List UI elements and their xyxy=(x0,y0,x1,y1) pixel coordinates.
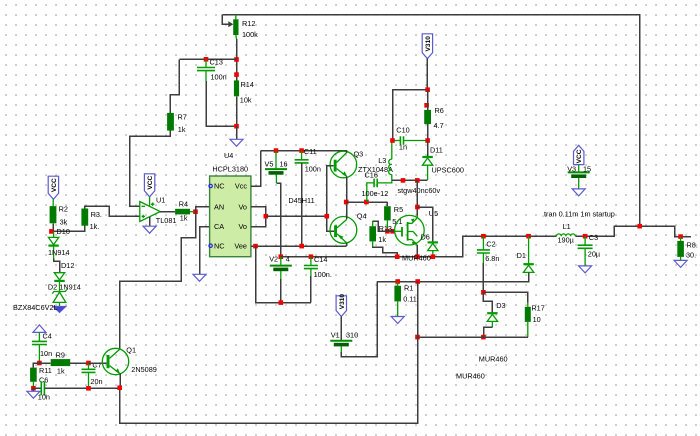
junction R2/R3/D10 node xyxy=(49,229,54,234)
svg-text:NC: NC xyxy=(214,182,225,191)
capacitor C2 xyxy=(477,250,490,253)
resistor R7 xyxy=(167,113,174,131)
svg-text:MUR460: MUR460 xyxy=(479,355,508,364)
svg-text:R14: R14 xyxy=(241,80,254,89)
ground under D2 (filled) xyxy=(53,306,66,312)
wire V5 top lead xyxy=(275,151,277,169)
junction V5 top xyxy=(274,148,279,153)
wire C7 node to Q1 base xyxy=(89,362,107,364)
svg-text:V1: V1 xyxy=(331,331,340,340)
svg-text:30.: 30. xyxy=(686,251,696,260)
battery V1 xyxy=(330,340,352,342)
svg-text:stgw40nc60v: stgw40nc60v xyxy=(398,186,441,195)
junction C13 top xyxy=(204,57,209,62)
capacitor C13 top lead xyxy=(205,59,207,67)
wire R4 node to AN pin xyxy=(196,207,210,212)
capacitor C10 xyxy=(400,136,403,145)
wire branch down to bottom return xyxy=(120,282,418,424)
wire V5 bottom lead xyxy=(275,175,277,184)
wire R2 bottom to D10 node xyxy=(52,223,54,231)
wire gate drive node to R5 xyxy=(346,201,387,203)
resistor R6 xyxy=(424,110,431,124)
svg-text:C3: C3 xyxy=(589,233,598,242)
capacitor C6 xyxy=(41,381,44,395)
resistor R17 xyxy=(525,307,531,322)
svg-text:20µ: 20µ xyxy=(588,250,601,259)
resistor R12 xyxy=(233,19,238,35)
junction C7 top node xyxy=(86,361,91,366)
junction on snubber bottom rail xyxy=(401,178,406,183)
wire V2 minus down xyxy=(280,279,282,303)
capacitor C10 left lead xyxy=(393,140,401,142)
wire CA pin stub xyxy=(200,227,210,275)
svg-text:D1: D1 xyxy=(517,251,526,260)
junction collector / D6 tap xyxy=(415,205,420,210)
capacitor C2 top lead xyxy=(482,236,484,250)
svg-text:UPSC600: UPSC600 xyxy=(432,166,464,175)
svg-text:VCC: VCC xyxy=(576,149,583,163)
wire C14 bottom to return xyxy=(310,276,312,303)
svg-text:MUR460: MUR460 xyxy=(456,372,485,381)
diode D12 xyxy=(54,273,64,280)
diode D11 xyxy=(422,156,432,158)
resistor R17 top lead xyxy=(527,303,529,307)
junction top feedback tap xyxy=(637,224,642,229)
wire ground stub under R11 xyxy=(32,388,34,391)
battery V1 bottom lead xyxy=(340,346,342,352)
svg-text:R11: R11 xyxy=(39,366,52,375)
resistor R2 xyxy=(50,206,57,223)
resistor R13 xyxy=(369,226,376,241)
battery V2 xyxy=(270,265,292,267)
svg-text:NC: NC xyxy=(214,241,225,250)
wire D12 to D2 xyxy=(59,281,61,291)
resistor R4 xyxy=(175,209,190,215)
capacitor C7 top lead xyxy=(88,363,90,369)
junction C7 bottom on rail xyxy=(86,386,91,391)
svg-text:3k: 3k xyxy=(60,218,68,227)
svg-text:R3.: R3. xyxy=(91,210,102,219)
wire R12 bottom lead xyxy=(235,35,238,39)
wire Vee down to bottom return xyxy=(256,246,311,303)
svg-text:AN: AN xyxy=(214,202,224,211)
wire top supply rail of driver xyxy=(261,150,347,152)
junction R11 bottom node xyxy=(31,386,36,391)
svg-text:310: 310 xyxy=(346,331,358,340)
svg-text:Q4: Q4 xyxy=(357,212,367,221)
wire C13 top horizontal xyxy=(179,58,236,60)
junction C4 bottom node xyxy=(37,361,42,366)
junction V310/R6 node xyxy=(425,87,430,92)
svg-text:2N5089: 2N5089 xyxy=(131,365,157,374)
junction Q3e/Q4c gate drive node xyxy=(344,200,349,205)
junction C2 top xyxy=(481,234,486,239)
ground under R1 xyxy=(391,317,404,324)
svg-text:U1: U1 xyxy=(156,196,165,205)
junction C10 right / R6 bottom xyxy=(425,138,430,143)
battery V5 xyxy=(265,168,287,170)
junction C3 top xyxy=(583,234,588,239)
wire output rail after L1 xyxy=(575,226,691,236)
svg-text:1k: 1k xyxy=(178,125,186,134)
wire VCC flag to op-amp V+ xyxy=(149,197,151,206)
inductor L3 top lead xyxy=(391,141,393,159)
svg-text:1N914: 1N914 xyxy=(59,282,81,291)
ground on CA pin xyxy=(193,274,206,281)
wire Vcc pin up to top rail xyxy=(251,151,261,186)
junction D3 on bottom snubber rail xyxy=(481,335,486,340)
wire snubber node down to D3 xyxy=(483,292,492,313)
svg-text:1k.: 1k. xyxy=(90,222,100,231)
wire R5 top lead xyxy=(386,202,388,206)
svg-text:100n: 100n xyxy=(305,165,321,174)
wire D10 node to R3 bottom xyxy=(53,226,85,232)
svg-text:R9: R9 xyxy=(56,351,65,360)
capacitor C3 top lead xyxy=(584,236,586,245)
junction V1-minus branch node xyxy=(415,279,420,284)
resistor R13 bottom lead xyxy=(372,241,374,246)
resistor R1 xyxy=(394,286,401,302)
diode D3 xyxy=(487,312,497,314)
wire top rail from R12 area to far right and down to output node xyxy=(222,15,639,227)
svg-text:Vee: Vee xyxy=(234,241,247,250)
wire Vo output rail xyxy=(266,215,327,217)
svg-text:.tran 0.11m 1m startup: .tran 0.11m 1m startup xyxy=(542,210,615,219)
diode D1 cathode lead xyxy=(528,236,530,264)
svg-text:6.8n: 6.8n xyxy=(485,254,499,263)
junction V2 minus on return xyxy=(279,300,284,305)
wire R3 top to op-amp non-inverting input xyxy=(85,206,140,216)
capacitor C16 xyxy=(374,179,377,188)
junction C10 left / L3 top xyxy=(390,138,395,143)
wire C11 bottom to Vee rail xyxy=(301,163,303,246)
junction base drive on Vo rail xyxy=(325,214,330,219)
svg-text:16: 16 xyxy=(280,159,288,168)
diode D3 anode lead xyxy=(491,321,493,327)
junction D6 anode on rail xyxy=(431,254,436,259)
svg-text:100n: 100n xyxy=(211,73,227,82)
resistor R8 top lead xyxy=(680,237,682,241)
svg-text:4: 4 xyxy=(286,255,290,264)
wire R13 bottom to return rail xyxy=(373,247,398,257)
pin NC bottom-left with blue dot xyxy=(209,244,212,247)
diode D10 top lead xyxy=(53,231,55,237)
resistor R11 xyxy=(30,368,37,382)
svg-text:Q1: Q1 xyxy=(126,346,136,355)
wiper arrow into R12 xyxy=(228,21,233,27)
svg-text:BZX84C6V2L: BZX84C6V2L xyxy=(13,303,58,312)
svg-text:C10: C10 xyxy=(396,126,409,135)
junction C16 tap xyxy=(364,200,369,205)
zener diode D2 xyxy=(52,289,67,293)
junction IGBT emitter on rail xyxy=(415,254,420,259)
wire Vo pins tied together xyxy=(251,207,266,227)
wire op-amp V- to ground xyxy=(149,217,151,226)
wire D2 to ground xyxy=(59,302,61,306)
svg-text:VCC: VCC xyxy=(147,175,154,189)
transistor U5 IGBT xyxy=(395,215,425,245)
junction R5 bottom on gate wire xyxy=(385,229,390,234)
net flag VCC above U1 xyxy=(144,174,154,197)
junction C14 top xyxy=(309,254,314,259)
wire ground stub under R14 xyxy=(236,126,238,139)
capacitor C13 xyxy=(197,68,215,71)
svg-text:4.7: 4.7 xyxy=(434,121,444,130)
svg-text:R17: R17 xyxy=(531,304,544,313)
wire D11 top lead xyxy=(427,141,429,158)
svg-text:10: 10 xyxy=(533,315,541,324)
resistor R1 bottom lead xyxy=(397,301,399,316)
svg-text:D2: D2 xyxy=(48,282,57,291)
op-amp U4 HCPL3180 body xyxy=(210,176,251,257)
battery V3 bottom lead xyxy=(578,178,580,189)
svg-text:10k: 10k xyxy=(240,96,252,105)
wire IGBT emitter down xyxy=(416,245,418,257)
svg-text:D10: D10 xyxy=(57,227,70,236)
wire R12 top stub xyxy=(235,15,237,20)
wire Q3 base / Q4 base vertical xyxy=(327,166,334,231)
wire IGBT collector up xyxy=(416,180,418,216)
capacitor C2 bottom lead xyxy=(482,253,484,263)
svg-text:190µ: 190µ xyxy=(558,236,575,245)
resistor R13 top lead xyxy=(372,221,374,226)
wire R6 bottom to C10 right node xyxy=(427,124,429,140)
resistor R3 xyxy=(81,209,88,226)
wire V310 flag to V1 xyxy=(340,317,342,341)
wire Q4 collector up to gate node xyxy=(346,202,348,219)
battery V3 xyxy=(568,171,590,173)
svg-text:V5: V5 xyxy=(265,159,274,168)
wire V310 flag down to R6 node xyxy=(426,59,428,90)
svg-text:Vo: Vo xyxy=(238,202,247,211)
capacitor C10 right lead xyxy=(404,140,428,142)
junction left end of snubber rail xyxy=(415,335,420,340)
wire D1 anode to V1 minus line xyxy=(377,272,528,281)
wire V2 bottom lead xyxy=(280,271,282,279)
wire R14 bottom to ground node xyxy=(236,96,238,126)
wire L3/D11 bottom rail xyxy=(392,179,428,181)
wire VCC flag to R2 xyxy=(52,199,54,206)
inductor L1 xyxy=(557,234,576,236)
svg-text:100e-12: 100e-12 xyxy=(362,189,389,198)
ground under R8 xyxy=(674,260,687,267)
svg-text:1N914: 1N914 xyxy=(48,248,70,257)
wire V1 minus to branch xyxy=(341,282,377,357)
junction Vee down branch xyxy=(253,244,258,249)
junction R6 top pin xyxy=(424,103,429,108)
capacitor C14 xyxy=(304,266,318,269)
svg-text:100n.: 100n. xyxy=(314,270,332,279)
wire step down from top rail to R12 wiper arrow xyxy=(222,15,228,25)
wire VCC flag to V3 xyxy=(578,165,580,173)
svg-text:D3: D3 xyxy=(496,301,505,310)
svg-text:R1: R1 xyxy=(404,284,413,293)
transistor Q1 xyxy=(102,348,128,374)
ground under R14 xyxy=(230,139,243,146)
inductor L3 xyxy=(389,159,392,174)
wire V2 node rail to output devices xyxy=(281,236,557,257)
net flag V310 top xyxy=(422,34,432,59)
resistor R17 bottom lead xyxy=(527,322,529,337)
capacitor C14 top lead xyxy=(310,257,312,266)
wire bottom snubber rail xyxy=(418,336,528,338)
junction R14 top pin xyxy=(234,72,239,77)
resistor R8 xyxy=(677,241,684,257)
wire R5 bottom lead xyxy=(386,220,388,231)
svg-text:100k: 100k xyxy=(242,30,258,39)
inductor L3 bottom lead xyxy=(391,175,393,181)
svg-text:V310: V310 xyxy=(339,294,346,310)
wire R4 right lead xyxy=(190,211,196,213)
svg-text:R6: R6 xyxy=(435,106,444,115)
wire Q4 emitter to Vee rail xyxy=(346,243,348,246)
svg-text:20n: 20n xyxy=(90,377,102,386)
wire R9 to C7 node xyxy=(70,362,88,364)
svg-text:0.11: 0.11 xyxy=(403,295,417,304)
ground above C4 (inverted) xyxy=(33,325,46,333)
wire snubber node to R17 top xyxy=(483,292,527,302)
junction R4 output node xyxy=(193,209,198,214)
capacitor C3 xyxy=(578,245,593,248)
resistor R1 top lead xyxy=(397,282,399,286)
svg-text:R12: R12 xyxy=(242,19,255,28)
junction Vo tie xyxy=(264,214,269,219)
svg-text:D6: D6 xyxy=(421,233,430,242)
wire feedback corner to R7 xyxy=(170,59,179,113)
capacitor C11 top lead xyxy=(301,151,303,160)
junction Q1 emitter node xyxy=(117,385,122,390)
junction R1 top xyxy=(395,279,400,284)
capacitor C3 bottom lead xyxy=(584,249,586,266)
capacitor C7 bottom lead xyxy=(88,373,90,389)
svg-text:HCPL3180: HCPL3180 xyxy=(212,165,248,174)
wire D10 to D12 xyxy=(54,259,60,273)
svg-text:R4: R4 xyxy=(179,200,188,209)
svg-text:C16: C16 xyxy=(365,171,378,180)
wire V5 minus down to V2 plus node xyxy=(276,183,280,257)
ground under V3 xyxy=(572,189,585,196)
wire IGBT gate lead xyxy=(395,230,402,232)
svg-text:U4: U4 xyxy=(224,151,233,160)
svg-text:V2: V2 xyxy=(269,255,278,264)
svg-text:C7: C7 xyxy=(92,361,101,370)
resistor R11 bottom lead xyxy=(32,382,34,388)
wire Q3 emitter down xyxy=(346,177,348,202)
wire R4 node down to Q1 collector xyxy=(120,212,196,349)
wire node to R11 top xyxy=(33,363,39,368)
junction collector top on snubber rail xyxy=(415,178,420,183)
wire R12 bottom to R14 top xyxy=(236,39,238,80)
svg-text:10n: 10n xyxy=(38,393,50,402)
svg-text:VCC: VCC xyxy=(51,178,58,192)
svg-text:D45H11: D45H11 xyxy=(288,196,314,205)
svg-text:L1: L1 xyxy=(563,222,571,231)
diode D6 anode lead xyxy=(432,251,434,257)
diode D11 bottom lead xyxy=(427,165,429,180)
junction D1 top xyxy=(526,234,531,239)
capacitor C7 xyxy=(82,369,96,372)
junction R12/C13 node xyxy=(234,57,239,62)
svg-text:1n: 1n xyxy=(399,143,407,152)
svg-text:MUR460: MUR460 xyxy=(402,254,431,263)
junction gate pin xyxy=(390,229,395,234)
svg-text:V310: V310 xyxy=(425,36,432,52)
wire C2 bottom down to snubber node xyxy=(482,263,484,292)
wire collector tap to D6 cathode xyxy=(417,207,432,242)
diode D1 xyxy=(523,263,533,265)
capacitor C16 right lead xyxy=(377,180,392,183)
pin NC top-left with blue dot xyxy=(209,184,212,187)
op-amp U1 xyxy=(140,202,160,222)
wire V2 top lead xyxy=(280,257,282,265)
wire node to C6 left plate xyxy=(33,387,41,389)
wire Q3 collector to rail xyxy=(346,151,348,153)
junction C11 top xyxy=(299,148,304,153)
svg-text:C4: C4 xyxy=(43,332,52,341)
wire R6 node down xyxy=(427,90,429,110)
svg-text:Q3: Q3 xyxy=(354,150,364,159)
svg-text:1k: 1k xyxy=(180,214,188,223)
diode D10 bottom lead xyxy=(53,246,55,259)
diode D6 xyxy=(428,241,438,243)
svg-text:R8.: R8. xyxy=(687,241,698,250)
resistor R5 xyxy=(384,206,391,220)
svg-text:R7: R7 xyxy=(178,113,187,122)
junction ground node under R14 xyxy=(234,124,239,129)
svg-text:D12: D12 xyxy=(61,261,74,270)
junction R8 top xyxy=(678,234,683,239)
net flag V310 left xyxy=(336,296,346,317)
transistor Q4 xyxy=(330,217,357,244)
resistor R9 xyxy=(51,359,70,366)
resistor R8 bottom lead xyxy=(680,257,682,261)
capacitor C14 bottom lead xyxy=(310,269,312,276)
svg-text:Vo: Vo xyxy=(238,222,247,231)
wire Vee pin rail xyxy=(251,245,347,247)
transistor Q3 xyxy=(330,151,357,178)
junction C2 bottom node xyxy=(481,290,486,295)
svg-text:C14: C14 xyxy=(314,255,327,264)
diode D10 xyxy=(48,237,58,244)
ground under U1 xyxy=(143,226,156,233)
svg-text:C11: C11 xyxy=(304,147,317,156)
capacitor C4 xyxy=(32,341,47,344)
junction R13 path on return rail xyxy=(395,254,400,259)
wire C13 bottom down and right to ground node xyxy=(206,81,237,126)
capacitor C4 top lead xyxy=(38,332,40,341)
svg-text:CA: CA xyxy=(214,222,224,231)
junction C11 bottom on Vee rail xyxy=(299,244,304,249)
svg-text:10n: 10n xyxy=(40,349,52,358)
wire op-amp output to R4 xyxy=(160,211,175,213)
net flag VCC above R2 xyxy=(48,176,58,199)
net flag VCC of V3 xyxy=(574,145,584,164)
wire node to R9 xyxy=(39,362,50,364)
svg-text:R2: R2 xyxy=(59,205,68,214)
svg-text:C2: C2 xyxy=(486,240,495,249)
svg-text:D11: D11 xyxy=(430,146,443,155)
wire C6 to C7/Q1 emitter rail xyxy=(44,387,119,389)
svg-text:C13: C13 xyxy=(210,58,223,67)
svg-text:TL081: TL081 xyxy=(156,216,177,225)
svg-text:L3: L3 xyxy=(378,156,386,165)
wire R13 top jog to gate wire xyxy=(373,221,395,231)
wire R7 bottom to op-amp inverting input xyxy=(130,131,171,207)
wire D3 anode to bottom rail xyxy=(484,327,493,337)
resistor R14 xyxy=(234,80,239,96)
svg-text:R5: R5 xyxy=(394,205,403,214)
capacitor C11 xyxy=(295,160,309,163)
